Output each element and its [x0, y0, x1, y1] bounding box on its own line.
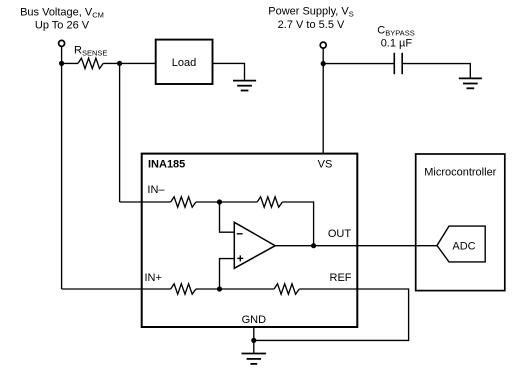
svg-text:GND: GND: [242, 314, 267, 326]
resistor R_SENSE: [78, 58, 103, 68]
wire feedback to OUT: [282, 202, 313, 246]
junction IN- node: [217, 199, 222, 204]
terminal: power supply input: [320, 42, 326, 48]
svg-text:Load: Load: [172, 57, 196, 69]
svg-text:REF: REF: [330, 272, 352, 284]
wire VS vertical: [322, 49, 324, 154]
block Microcontroller: [416, 154, 505, 291]
wire Load to ground: [213, 63, 245, 81]
label C_BYPASS 0.1uF: [377, 24, 414, 49]
svg-text:Power Supply, VS: Power Supply, VS: [268, 6, 354, 19]
junction GND/REF: [251, 338, 256, 343]
wire IN+ row: [62, 288, 171, 290]
junction R_SENSE / IN- branch: [117, 61, 122, 66]
capacitor C_BYPASS: [394, 53, 402, 74]
wire op-amp non-inverting input: [220, 259, 235, 289]
wire GND stub: [253, 327, 255, 354]
wire IN- row: [120, 201, 171, 203]
block ADC: [437, 226, 485, 262]
svg-text:0.1 µF: 0.1 µF: [381, 37, 413, 49]
op-amp plus sign: [237, 255, 243, 261]
svg-text:Microcontroller: Microcontroller: [424, 166, 496, 178]
wire bus node to R_SENSE: [62, 62, 78, 64]
op-amp minus sign: [237, 233, 243, 235]
svg-text:RSENSE: RSENSE: [74, 45, 107, 58]
ground (power supply): [459, 78, 482, 88]
ground (load): [233, 81, 256, 91]
junction bus/R_SENSE: [59, 61, 64, 66]
terminal: bus voltage input: [59, 40, 65, 46]
wire OUT row: [275, 245, 437, 247]
wire IN- node: [196, 201, 257, 203]
wire IN+ node to REF resistor: [196, 288, 274, 290]
wire op-amp inverting input: [220, 202, 235, 232]
IC INA185 box: [142, 154, 358, 327]
label R_SENSE: [74, 45, 107, 58]
svg-text:CBYPASS: CBYPASS: [377, 24, 414, 37]
resistor input R (IN+): [171, 284, 196, 294]
svg-text:OUT: OUT: [328, 228, 352, 240]
op-amp U1: [234, 222, 275, 268]
wire R_SENSE to Load: [103, 62, 156, 64]
svg-text:VS: VS: [318, 159, 333, 171]
resistor input R (IN-): [171, 197, 196, 207]
svg-text:INA185: INA185: [148, 159, 185, 171]
resistor REF: [274, 284, 299, 294]
wire C_BYPASS to ground: [402, 64, 470, 79]
junction IN+ node: [217, 286, 222, 291]
svg-text:Bus Voltage, VCM: Bus Voltage, VCM: [20, 7, 104, 20]
node Power Supply label: [268, 6, 354, 32]
wire REF return loop: [254, 289, 409, 340]
svg-text:Up To 26 V: Up To 26 V: [35, 20, 90, 32]
ground (GND pin): [242, 354, 267, 364]
wire bus vertical down to IN+ row: [61, 47, 63, 289]
svg-text:2.7 V to 5.5 V: 2.7 V to 5.5 V: [278, 19, 345, 31]
block Load: [156, 40, 213, 84]
svg-text:ADC: ADC: [452, 240, 475, 252]
svg-text:IN+: IN+: [145, 272, 162, 284]
wire power node to C_BYPASS: [323, 63, 394, 65]
node Bus Voltage label: [20, 7, 104, 32]
wire IN- branch vertical: [119, 63, 121, 202]
junction power/bypass: [321, 61, 326, 66]
junction OUT/feedback: [311, 243, 316, 248]
resistor feedback: [257, 197, 282, 207]
svg-text:IN–: IN–: [147, 184, 165, 196]
